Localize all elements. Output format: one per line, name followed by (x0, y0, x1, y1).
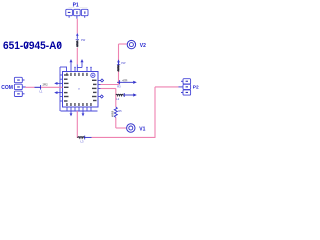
svg-text:651-0945-A0: 651-0945-A0 (3, 40, 62, 52)
svg-text:47R: 47R (122, 78, 127, 82)
svg-text:PW: PW (121, 61, 126, 65)
svg-text:P2: P2 (193, 85, 199, 91)
svg-text:R5: R5 (118, 109, 122, 113)
svg-text:49R9: 49R9 (111, 110, 115, 117)
svg-text:R3: R3 (117, 85, 121, 89)
svg-text:V2: V2 (140, 43, 146, 49)
svg-text:V1: V1 (139, 127, 145, 133)
svg-text:2R2: 2R2 (43, 83, 49, 87)
svg-text:COM: COM (1, 85, 13, 91)
svg-text:PW: PW (81, 38, 86, 42)
